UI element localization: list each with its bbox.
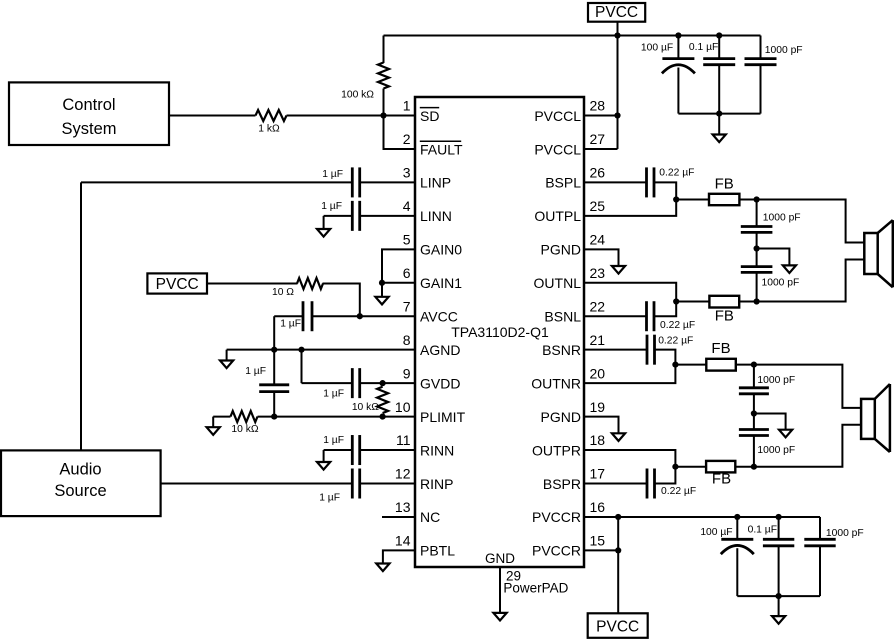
- svg-text:0.22 µF: 0.22 µF: [659, 167, 694, 178]
- svg-text:23: 23: [590, 265, 606, 281]
- svg-text:1 µF: 1 µF: [323, 435, 344, 446]
- svg-text:FB: FB: [715, 308, 734, 325]
- ground GAIN: [375, 283, 388, 305]
- pin 1 SD label: [403, 98, 440, 124]
- svg-text:PVCCL: PVCCL: [534, 141, 581, 157]
- svg-text:1000 pF: 1000 pF: [826, 528, 864, 539]
- node AGND j1: [298, 347, 304, 353]
- node FB4 out junction: [751, 464, 757, 470]
- svg-text:BSNL: BSNL: [544, 309, 581, 325]
- svg-text:AVCC: AVCC: [420, 309, 458, 325]
- svg-text:LINN: LINN: [420, 208, 452, 224]
- pin 17 BSPR label: [543, 466, 605, 492]
- capacitor C19 100 uF: [700, 517, 753, 596]
- capacitor C21 1000 pF: [804, 517, 863, 596]
- node C19 top: [734, 514, 740, 520]
- wire OUTPL: [584, 200, 676, 216]
- capacitor C14 0.22 uF BSNL: [584, 301, 695, 331]
- pin 21 BSNR label: [542, 332, 605, 358]
- node C20 top: [776, 514, 782, 520]
- svg-text:17: 17: [590, 466, 606, 482]
- resistor R1 1 kΩ: [256, 110, 287, 135]
- ground LINN: [317, 216, 330, 237]
- capacitor C3 1000 pF: [745, 36, 803, 114]
- pin 27 PVCCL label: [534, 131, 605, 157]
- svg-text:1000 pF: 1000 pF: [757, 375, 795, 386]
- svg-text:14: 14: [395, 533, 411, 549]
- pin 15 PVCCR label: [532, 533, 605, 559]
- ground PowerPAD: [493, 613, 506, 621]
- ground L filter: [783, 265, 796, 273]
- svg-text:1 µF: 1 µF: [322, 169, 343, 180]
- pin 20 OUTNR label: [531, 365, 605, 391]
- svg-text:PVCC: PVCC: [596, 619, 639, 636]
- pin 6 GAIN1 label: [403, 265, 463, 291]
- wire OUTPR: [584, 450, 675, 467]
- wire R 10 to AVCC: [323, 284, 360, 317]
- node OUTNR junction: [672, 362, 678, 368]
- capacitor C17 1000 pF R2: [739, 414, 795, 467]
- svg-text:1 µF: 1 µF: [323, 389, 344, 400]
- node pin28 junction: [614, 112, 620, 118]
- svg-text:0.1 µF: 0.1 µF: [748, 525, 777, 536]
- svg-text:9: 9: [403, 365, 411, 381]
- wire FB3 to speaker R+: [754, 365, 861, 408]
- svg-text:PVCC: PVCC: [595, 4, 638, 21]
- svg-text:3: 3: [403, 165, 411, 181]
- pin 18 OUTPR label: [532, 432, 605, 458]
- svg-text:10 kΩ: 10 kΩ: [352, 402, 379, 413]
- wire PGND 24: [584, 249, 619, 266]
- svg-text:12: 12: [395, 466, 411, 482]
- pin 13 NC label: [395, 499, 440, 525]
- wire OUTNL: [584, 283, 676, 302]
- svg-text:27: 27: [590, 131, 606, 147]
- svg-text:RINP: RINP: [420, 476, 453, 492]
- resistor R3 10 Ω: [272, 278, 323, 298]
- wire PBTL: [383, 550, 415, 563]
- wire AGND: [227, 349, 415, 351]
- capacitor C1 100 uF: [641, 36, 695, 114]
- wire FB1 to speaker L+: [757, 200, 865, 243]
- svg-text:PBTL: PBTL: [420, 543, 455, 559]
- svg-text:4: 4: [403, 198, 411, 214]
- svg-text:10 Ω: 10 Ω: [272, 287, 294, 298]
- capacitor C12 1000 pF L: [741, 200, 801, 249]
- svg-text:FB: FB: [711, 340, 730, 357]
- node top bank gnd junction: [716, 111, 722, 117]
- svg-text:18: 18: [590, 432, 606, 448]
- pin 16 PVCCR label: [532, 499, 605, 525]
- pin 22 BSNL label: [544, 298, 605, 324]
- ground AGND: [220, 350, 233, 368]
- ground RINN: [317, 450, 330, 470]
- pin 29 GND PowerPAD: [485, 551, 569, 613]
- svg-text:System: System: [61, 120, 116, 138]
- capacitor C11 0.22 uF BSPL: [584, 167, 694, 199]
- svg-text:TPA3110D2-Q1: TPA3110D2-Q1: [451, 324, 549, 340]
- pin 7 AVCC label: [403, 298, 458, 324]
- svg-text:22: 22: [590, 298, 606, 314]
- svg-text:OUTPR: OUTPR: [532, 442, 581, 458]
- svg-text:1 µF: 1 µF: [280, 319, 301, 330]
- pin 24 PGND label: [541, 232, 606, 258]
- svg-text:GAIN1: GAIN1: [420, 275, 462, 291]
- wire LINP to Audio Source: [80, 182, 82, 450]
- svg-text:FB: FB: [715, 176, 734, 193]
- wire top bank bottom rail: [678, 113, 760, 115]
- capacitor C13 1000 pF L2: [741, 249, 799, 302]
- ferrite bead FB4: [675, 461, 754, 488]
- svg-text:PLIMIT: PLIMIT: [420, 409, 466, 425]
- svg-text:PVCCR: PVCCR: [532, 543, 581, 559]
- node PLIMIT cap junction: [271, 413, 277, 419]
- svg-text:13: 13: [395, 499, 411, 515]
- wire NC stub: [382, 516, 415, 518]
- node PVCCR j2: [615, 547, 621, 553]
- svg-text:100 µF: 100 µF: [700, 527, 732, 538]
- svg-text:1000 pF: 1000 pF: [763, 213, 801, 224]
- svg-text:PGND: PGND: [541, 409, 581, 425]
- node C1 top: [675, 32, 681, 38]
- ground PGND 19: [612, 433, 625, 441]
- svg-text:1000 pF: 1000 pF: [757, 445, 795, 456]
- svg-text:0.1 µF: 0.1 µF: [689, 42, 718, 53]
- ground R filter: [779, 430, 792, 438]
- svg-text:PVCCR: PVCCR: [532, 509, 581, 525]
- ground PGND 24: [612, 266, 625, 274]
- node AVCC junction: [357, 313, 363, 319]
- svg-text:0.22 µF: 0.22 µF: [658, 335, 693, 346]
- svg-text:1 µF: 1 µF: [245, 366, 266, 377]
- capacitor C9 1 uF RINN: [323, 435, 415, 465]
- svg-text:GVDD: GVDD: [420, 375, 460, 391]
- capacitor C20 0.1 uF: [748, 517, 795, 596]
- pin 8 AGND label: [403, 332, 461, 358]
- speaker left channel: [864, 220, 893, 287]
- wire L filter gnd stub: [757, 249, 790, 266]
- wire PVCC top rail: [384, 35, 761, 37]
- node OUTPL junction: [673, 196, 679, 202]
- pin 2 FAULT label: [403, 131, 463, 157]
- pin 5 GAIN0 label: [403, 232, 463, 258]
- wire PVCCR rail: [584, 516, 820, 518]
- wire pullup top: [383, 36, 385, 64]
- wire AVCC cap to AGND: [273, 316, 275, 349]
- svg-text:Audio: Audio: [59, 461, 101, 479]
- pin 9 GVDD label: [403, 365, 461, 391]
- svg-text:1000 pF: 1000 pF: [762, 278, 800, 289]
- svg-text:AGND: AGND: [420, 342, 460, 358]
- svg-text:PowerPAD: PowerPAD: [503, 581, 568, 596]
- node C2 top: [716, 32, 722, 38]
- wire SD node to FAULT pin 2: [384, 116, 416, 149]
- svg-text:Source: Source: [54, 482, 106, 500]
- capacitor C15 0.22 uF BSNR: [584, 335, 693, 365]
- speaker right channel: [861, 384, 890, 452]
- svg-text:100 µF: 100 µF: [641, 43, 673, 54]
- svg-text:21: 21: [590, 332, 606, 348]
- pin 12 RINP label: [395, 466, 454, 492]
- svg-text:7: 7: [403, 298, 411, 314]
- resistor R5 10 kΩ PLIMIT-GND: [231, 411, 259, 435]
- svg-text:25: 25: [590, 198, 606, 214]
- wire bottom bank rail: [737, 595, 820, 597]
- wire pullup bottom: [383, 89, 385, 116]
- node AGND j2: [271, 347, 277, 353]
- svg-text:24: 24: [590, 232, 606, 248]
- node FB1 out junction: [754, 196, 760, 202]
- capacitor C5 1 uF LINN: [321, 201, 415, 231]
- svg-text:GAIN0: GAIN0: [420, 242, 462, 258]
- wire PLIMIT: [258, 416, 416, 418]
- power PVCC mid flag: [147, 273, 207, 293]
- node R filter mid junction: [751, 410, 757, 416]
- wire PGND 19: [584, 417, 619, 434]
- wire OUTNR: [584, 365, 675, 384]
- wire R filter gnd stub: [754, 414, 786, 431]
- node FB3 out junction: [751, 362, 757, 368]
- svg-text:GND: GND: [485, 551, 515, 566]
- ground PLIMIT: [207, 417, 220, 435]
- power PVCC bottom flag: [588, 613, 648, 638]
- pin 10 PLIMIT label: [395, 399, 466, 425]
- ferrite bead FB3: [675, 340, 754, 371]
- svg-text:OUTPL: OUTPL: [534, 208, 581, 224]
- capacitor C10 1 uF RINP: [161, 468, 415, 503]
- svg-text:19: 19: [590, 399, 606, 415]
- block Control System: [9, 82, 169, 145]
- svg-text:OUTNL: OUTNL: [534, 275, 582, 291]
- svg-text:26: 26: [590, 165, 606, 181]
- svg-text:0.22 µF: 0.22 µF: [660, 320, 695, 331]
- pin 23 OUTNL label: [534, 265, 606, 291]
- pin 14 PBTL label: [395, 533, 455, 559]
- ferrite bead FB2: [676, 296, 756, 325]
- pin 3 LINP label: [403, 165, 451, 191]
- wire PVCCR pin 15: [584, 549, 618, 551]
- ground PBTL: [376, 564, 389, 572]
- resistor R4 10 kΩ GVDD-PLIMIT: [352, 387, 388, 413]
- ground bottom bank: [772, 596, 785, 624]
- svg-text:2: 2: [403, 131, 411, 147]
- svg-text:BSPL: BSPL: [545, 175, 581, 191]
- svg-text:OUTNR: OUTNR: [531, 375, 581, 391]
- svg-text:RINN: RINN: [420, 442, 454, 458]
- pin 26 BSPL label: [545, 165, 605, 191]
- wire PLIMIT gnd: [213, 416, 230, 418]
- svg-text:1000 pF: 1000 pF: [765, 45, 803, 56]
- svg-text:1 µF: 1 µF: [321, 201, 342, 212]
- svg-text:11: 11: [396, 432, 411, 448]
- svg-text:1: 1: [403, 98, 411, 114]
- svg-text:8: 8: [403, 332, 411, 348]
- svg-text:PGND: PGND: [541, 242, 581, 258]
- block Audio Source: [1, 450, 161, 516]
- node GVDD junction: [380, 380, 386, 386]
- wire Control System to R 1k: [169, 115, 256, 117]
- wire GAIN0 to GAIN1: [382, 249, 415, 282]
- node PVCC rail junction: [614, 32, 620, 38]
- svg-text:10: 10: [395, 399, 411, 415]
- capacitor C16 1000 pF R: [739, 365, 795, 414]
- svg-text:NC: NC: [420, 509, 440, 525]
- ground top bank: [713, 114, 726, 143]
- svg-text:BSNR: BSNR: [542, 342, 581, 358]
- svg-text:SD: SD: [420, 108, 439, 124]
- pin 11 RINN label: [396, 432, 454, 458]
- wire R 1k to SD node: [287, 115, 416, 117]
- capacitor C18 0.22 uF BSPR: [584, 467, 696, 499]
- svg-text:FAULT: FAULT: [420, 141, 463, 157]
- node OUTPR junction: [672, 464, 678, 470]
- svg-text:PVCC: PVCC: [156, 276, 199, 293]
- ferrite bead FB1: [676, 176, 756, 206]
- node OUTNL junction: [673, 298, 679, 304]
- node L filter mid junction: [754, 245, 760, 251]
- pin 4 LINN label: [403, 198, 452, 224]
- svg-text:10 kΩ: 10 kΩ: [231, 424, 258, 435]
- node FB2 out junction: [754, 298, 760, 304]
- svg-text:LINP: LINP: [420, 175, 451, 191]
- op-amp U1 TPA3110D2-Q1 body: [415, 97, 584, 567]
- resistor R2 100 kΩ: [341, 63, 389, 101]
- pin 19 PGND label: [541, 399, 606, 425]
- svg-text:28: 28: [590, 98, 606, 114]
- svg-text:BSPR: BSPR: [543, 476, 581, 492]
- pin 25 OUTPL label: [534, 198, 605, 224]
- capacitor C2 0.1 uF: [689, 36, 735, 114]
- svg-text:15: 15: [590, 533, 606, 549]
- wire FB4 to speaker R-: [754, 425, 861, 467]
- pin 28 PVCCL label: [534, 98, 605, 124]
- svg-text:Control: Control: [62, 96, 115, 114]
- svg-text:1 kΩ: 1 kΩ: [258, 124, 280, 135]
- power PVCC top flag: [588, 3, 645, 22]
- capacitor C7 1 uF PLIMIT: [245, 350, 289, 417]
- svg-text:20: 20: [590, 365, 606, 381]
- svg-text:FB: FB: [712, 471, 731, 488]
- svg-text:16: 16: [590, 499, 606, 515]
- wire PVCC down to pins 28-27: [584, 22, 618, 149]
- capacitor C4 1 uF LINP: [81, 167, 415, 197]
- capacitor C8 1 uF GVDD: [302, 350, 416, 400]
- node PVCCR j1: [615, 514, 621, 520]
- svg-text:1 µF: 1 µF: [319, 493, 340, 504]
- node GAIN junction: [379, 280, 385, 286]
- svg-text:100 kΩ: 100 kΩ: [341, 90, 374, 101]
- wire PVCCR to PVCC flag: [617, 517, 619, 613]
- node bottom bank gnd junction: [776, 593, 782, 599]
- svg-text:0.22 µF: 0.22 µF: [661, 486, 696, 497]
- node PLIMIT 10k junction: [380, 413, 386, 419]
- capacitor C6 1 uF AVCC: [274, 301, 415, 331]
- node SD junction: [380, 112, 386, 118]
- svg-text:PVCCL: PVCCL: [534, 108, 581, 124]
- svg-text:5: 5: [403, 232, 411, 248]
- wire PVCC to R 10: [207, 283, 298, 285]
- svg-text:6: 6: [403, 265, 411, 281]
- wire FB2 to speaker L-: [757, 260, 865, 302]
